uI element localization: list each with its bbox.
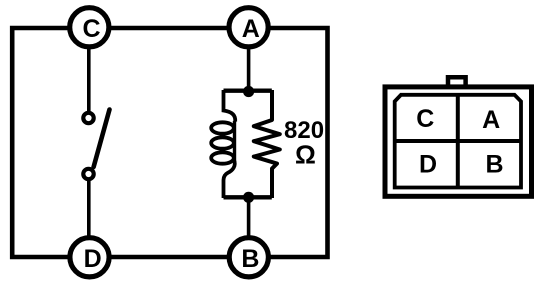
label: 820 (284, 117, 324, 144)
switch S1 (83, 110, 109, 180)
label: ohm symbol (295, 140, 316, 170)
connector label A (482, 106, 500, 134)
wire: bottom junction down to B (247, 197, 251, 257)
connector housing outer shell (385, 87, 532, 196)
connector vertical divider (456, 95, 460, 188)
wire: C to switch top terminal (87, 28, 91, 113)
svg-text:B: B (241, 245, 259, 273)
wire: A down to top junction (247, 28, 251, 92)
wire: top bar of parallel branch (224, 88, 272, 92)
node A circle (229, 8, 268, 47)
node: bottom junction dot (243, 192, 254, 203)
svg-text:B: B (485, 151, 503, 179)
node: top junction dot (243, 86, 254, 97)
wire: outer rectangular loop (12, 28, 327, 257)
connector label C (416, 105, 434, 133)
svg-text:D: D (84, 245, 102, 273)
connector label D (419, 151, 437, 179)
svg-text:D: D (419, 151, 437, 179)
connector horizontal divider (395, 139, 521, 143)
connector label B (485, 151, 503, 179)
svg-text:C: C (82, 15, 100, 43)
svg-text:C: C (416, 105, 434, 133)
wire: switch bottom terminal to D (87, 178, 91, 257)
node C circle (70, 8, 109, 47)
resistor R1 (254, 90, 280, 198)
node D circle (70, 238, 109, 277)
connector tab (448, 77, 466, 87)
svg-text:A: A (242, 15, 260, 43)
svg-text:Ω: Ω (295, 140, 316, 170)
node B circle (229, 238, 268, 277)
inductor L1 (211, 90, 235, 198)
svg-text:A: A (482, 106, 500, 134)
connector inner cavity outline (395, 95, 521, 188)
wire: bottom bar of parallel branch (224, 195, 272, 199)
